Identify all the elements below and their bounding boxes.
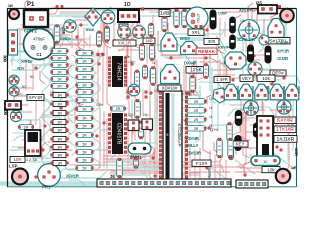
resistor RB1	[76, 50, 94, 55]
svg-text:2R: 2R	[82, 159, 87, 163]
resistor RB12	[76, 141, 94, 146]
crystal X1	[128, 143, 151, 154]
svg-text:1#R: 1#R	[291, 166, 297, 170]
resistor RB13	[76, 149, 94, 154]
resistor RB15	[76, 165, 94, 170]
pads top small	[56, 5, 58, 7]
pad bottom-right	[276, 169, 290, 183]
svg-text:DX#4R: DX#4R	[184, 61, 198, 66]
svg-text:1R: 1R	[57, 102, 62, 107]
svg-text:1#5K: 1#5K	[190, 68, 202, 74]
capacitor C2	[186, 7, 208, 29]
svg-text:4n7: 4n7	[98, 52, 104, 56]
svg-text:KTC08A=P: KTC08A=P	[177, 123, 182, 146]
svg-text:XD#1R: XD#1R	[66, 174, 80, 179]
mounting pad top-left	[9, 9, 19, 19]
resistor RA11	[51, 127, 69, 132]
capacitor CVb	[149, 44, 154, 61]
label X4L1R box	[113, 40, 136, 46]
resistor RV8	[182, 9, 187, 28]
resistor RV12	[217, 138, 222, 158]
svg-text:2R: 2R	[82, 99, 87, 103]
svg-text:2R: 2R	[116, 107, 121, 111]
resistor RC2	[186, 108, 207, 113]
resistor RA15	[51, 160, 69, 165]
resistor RV6	[162, 16, 167, 32]
svg-text:TR#A: TR#A	[85, 27, 95, 32]
capacitor CE1 dark	[235, 111, 241, 126]
diode D3	[230, 35, 236, 49]
vias	[29, 16, 294, 179]
transistor T2 left	[9, 75, 19, 85]
svg-text:C0N 2: C0N 2	[24, 29, 37, 35]
transistor QO1	[224, 84, 238, 100]
svg-text:BC: BC	[22, 85, 27, 89]
connector P5	[258, 5, 277, 14]
svg-text:1R: 1R	[57, 153, 62, 158]
svg-text:2R: 2R	[57, 71, 62, 75]
capacitor CV2	[134, 70, 139, 88]
svg-text:PR1: PR1	[42, 185, 51, 190]
svg-text:X#Y1R: X#Y1R	[29, 95, 43, 100]
resistor RC4	[186, 126, 207, 131]
connector 2pin left	[5, 101, 21, 110]
label X4L	[188, 29, 204, 36]
svg-text:10R: 10R	[13, 157, 21, 162]
svg-text:220R: 220R	[294, 148, 298, 156]
svg-text:C#1#R: C#1#R	[277, 41, 289, 46]
resistor RA3	[51, 62, 69, 67]
resistor RA8	[51, 101, 69, 106]
svg-text:2R: 2R	[82, 151, 87, 155]
svg-text:X#L1R: X#L1R	[118, 41, 131, 46]
transistor Q6	[101, 10, 115, 24]
label 10k	[257, 75, 275, 82]
resistor RB10	[76, 123, 94, 128]
label VEY	[240, 75, 253, 82]
resistor RV7	[174, 9, 179, 28]
svg-text:100n: 100n	[96, 103, 103, 107]
svg-text:2R: 2R	[82, 108, 87, 112]
resistor RB3	[76, 66, 94, 71]
svg-text:100n: 100n	[128, 60, 135, 64]
label SE1TB1	[266, 38, 290, 45]
svg-text:KEY#R: KEY#R	[218, 45, 230, 50]
resistor RA1	[51, 48, 69, 53]
IC U1	[108, 56, 126, 87]
resistor RH2	[110, 106, 126, 111]
resistor RV10	[227, 123, 232, 142]
label 10k b	[262, 167, 280, 173]
capacitor CVa	[139, 44, 144, 61]
svg-text:1 2 3A: 1 2 3A	[26, 158, 37, 162]
label K4Y4R	[274, 117, 296, 124]
svg-text:5: 5	[167, 133, 169, 137]
resistor RB5	[76, 82, 94, 87]
label REMAK	[196, 48, 217, 54]
transistor Q5 diamond	[85, 8, 101, 26]
svg-text:1R: 1R	[57, 137, 62, 142]
svg-text:1k: 1k	[209, 115, 213, 119]
IC U5 vertical module	[257, 116, 273, 157]
svg-text:2k2: 2k2	[76, 87, 81, 91]
svg-text:1N: 1N	[222, 61, 227, 65]
pad small top	[141, 8, 144, 11]
resistor RA6	[51, 83, 69, 88]
svg-text:KEY#: KEY#	[266, 86, 270, 94]
svg-text:F1X#: F1X#	[196, 161, 208, 167]
resistor RV5	[150, 67, 155, 86]
label 1-D box	[143, 38, 155, 43]
resistor RV9	[204, 64, 209, 79]
svg-text:2R: 2R	[82, 117, 87, 121]
svg-text:2R: 2R	[194, 109, 199, 113]
resistor RV1	[96, 31, 101, 47]
board outline left	[7, 8, 9, 187]
svg-text:300: 300	[208, 39, 216, 44]
svg-text:KEY#: KEY#	[297, 86, 301, 94]
svg-text:#DY: #DY	[17, 66, 25, 71]
capacitor CV5	[128, 120, 139, 131]
svg-text:2R: 2R	[82, 143, 87, 147]
svg-text:10n: 10n	[125, 55, 131, 59]
svg-text:X#+D#: X#+D#	[21, 59, 33, 64]
transistor Q15 octagon	[225, 52, 246, 69]
resistor RB11	[76, 132, 94, 137]
label 1T41R	[274, 126, 296, 133]
svg-text:P1: P1	[27, 2, 35, 8]
bottom copper cyan traces	[0, 10, 295, 185]
svg-text:1R: 1R	[57, 93, 62, 98]
svg-text:2R: 2R	[57, 78, 62, 82]
svg-text:2R: 2R	[24, 126, 29, 130]
label DEP4	[270, 70, 286, 76]
transistor Q10	[161, 65, 180, 84]
label KEY box	[232, 141, 248, 147]
svg-text:10R: 10R	[186, 93, 193, 97]
resistor R 100R	[54, 25, 60, 44]
svg-text:BC: BC	[30, 75, 35, 79]
svg-text:4700: 4700	[196, 14, 201, 24]
resistor RA14	[51, 152, 69, 157]
capacitor CV7	[134, 158, 139, 169]
resistor RB9	[76, 115, 94, 120]
connector J6 header	[97, 179, 231, 187]
svg-text:X#L: X#L	[192, 30, 201, 36]
resistor RB6	[76, 89, 94, 94]
resistor RB2	[76, 58, 94, 63]
trimmer VR5	[277, 100, 291, 114]
label 300 box	[204, 39, 219, 45]
resistor RA2	[51, 55, 69, 60]
transistor QO3	[255, 84, 268, 100]
transistor QO4	[270, 84, 284, 100]
svg-text:1R: 1R	[57, 120, 62, 125]
transistor T4 left	[10, 110, 21, 121]
svg-text:22p: 22p	[128, 113, 134, 117]
svg-text:470uF: 470uF	[33, 37, 45, 42]
resistor RB7	[76, 97, 94, 102]
diode D5	[265, 46, 271, 63]
transistor T1 topleft	[64, 20, 76, 32]
capacitor CE3 dark	[253, 123, 259, 137]
svg-text:KEY: KEY	[236, 142, 245, 147]
regulator VR1	[25, 130, 41, 156]
resistor RA7	[51, 92, 69, 97]
svg-text:2R: 2R	[194, 127, 199, 131]
svg-text:1O: 1O	[124, 2, 131, 8]
svg-text:KEY#: KEY#	[251, 86, 255, 94]
label 1.5K	[186, 67, 206, 74]
svg-text:10k: 10k	[262, 76, 270, 82]
resistor RV11	[228, 145, 233, 160]
svg-text:XD#13R: XD#13R	[186, 151, 202, 156]
diode D1	[210, 10, 216, 29]
trimmer VR3 flower	[248, 62, 262, 76]
resistor RA4	[51, 69, 69, 74]
svg-text:1k: 1k	[209, 97, 213, 101]
svg-text:2R: 2R	[82, 167, 87, 171]
trimmer VR2	[239, 20, 260, 41]
diode D2	[230, 17, 236, 33]
resistor R-left small	[18, 125, 34, 130]
resistor RB8	[76, 106, 94, 111]
svg-text:2R: 2R	[82, 134, 87, 138]
svg-text:47u: 47u	[154, 89, 160, 93]
svg-text:C0S#: C0S#	[218, 11, 228, 16]
svg-text:VEY: VEY	[242, 76, 252, 82]
svg-text:1k: 1k	[50, 46, 54, 50]
micro value labels	[22, 19, 246, 128]
top copper red traces	[10, 8, 293, 180]
resistor RB4	[76, 74, 94, 79]
pads mid	[195, 25, 197, 27]
label 1WJ1R	[274, 136, 297, 143]
svg-text:CD4017B: CD4017B	[116, 123, 122, 145]
resistor RA5	[51, 76, 69, 81]
svg-text:2R: 2R	[57, 64, 62, 68]
transistor Q12	[181, 42, 198, 55]
svg-text:2R: 2R	[57, 50, 62, 54]
connector 3pad top	[118, 10, 139, 22]
svg-text:2R: 2R	[82, 76, 87, 80]
transistor Q14	[259, 35, 269, 45]
svg-text:1C: 1C	[263, 159, 268, 164]
pad LSP	[12, 169, 28, 185]
transistor QO2	[239, 84, 253, 100]
capacitor CV8	[117, 158, 123, 178]
transistor Q8	[133, 26, 146, 39]
transistor T3 left	[9, 86, 19, 96]
svg-text:2R: 2R	[194, 118, 199, 122]
label small box	[119, 24, 128, 29]
transistor Q9	[128, 84, 140, 96]
svg-text:D#LL#: D#LL#	[186, 143, 199, 148]
diode bridge B1	[213, 88, 227, 103]
svg-text:2R: 2R	[57, 57, 62, 61]
resistor RA12	[51, 136, 69, 141]
svg-text:10k: 10k	[240, 19, 246, 23]
svg-text:1k: 1k	[209, 106, 213, 110]
resistor RV3	[148, 23, 153, 37]
transistor QO5	[285, 84, 299, 100]
label F1X4	[192, 160, 211, 167]
capacitor CV4	[150, 68, 155, 84]
resistor RV14	[190, 76, 195, 93]
pads pair mid	[97, 53, 99, 55]
svg-text:1R: 1R	[57, 128, 62, 133]
svg-text:74HC14: 74HC14	[116, 62, 122, 81]
inductor L1	[251, 156, 280, 166]
svg-text:2R: 2R	[82, 52, 87, 56]
extra zone traces	[100, 15, 153, 57]
pads U2 area	[127, 91, 129, 93]
svg-text:X#Y1R: X#Y1R	[277, 49, 289, 54]
resistor RVmid	[135, 100, 141, 119]
resistor RB14	[76, 157, 94, 162]
svg-text:2R: 2R	[82, 91, 87, 95]
label 14R	[214, 77, 230, 83]
svg-text:LSP: LSP	[9, 164, 18, 169]
resistor RC1	[186, 99, 207, 104]
svg-text:2R: 2R	[194, 100, 199, 104]
svg-text:1#D: 1#D	[146, 39, 153, 43]
svg-text:1#J2R: 1#J2R	[277, 56, 288, 61]
svg-text:SCRA 1#K: SCRA 1#K	[237, 37, 255, 42]
svg-text:10k: 10k	[76, 48, 82, 52]
capacitor CE2 dark	[235, 136, 241, 151]
label 1-8	[159, 10, 170, 18]
resistor RA10	[51, 119, 69, 124]
board outline bottom	[7, 186, 296, 188]
svg-text:1k: 1k	[50, 122, 54, 126]
transistor Q13	[268, 19, 284, 38]
svg-text:10k: 10k	[267, 167, 275, 172]
svg-text:1#J1#R: 1#J1#R	[277, 137, 295, 143]
svg-text:2R: 2R	[82, 84, 87, 88]
resistor RV13	[228, 138, 233, 158]
connector J7 header	[236, 180, 268, 188]
svg-text:1 4#R: 1 4#R	[216, 77, 228, 82]
board outline right	[296, 8, 298, 187]
IC U3	[108, 113, 126, 154]
resistor RA9	[51, 110, 69, 115]
svg-text:1R: 1R	[50, 90, 55, 94]
svg-text:1k: 1k	[209, 124, 213, 128]
capacitor CV3	[143, 65, 148, 79]
capacitor CV6	[142, 119, 153, 130]
IC U4 MCU	[159, 91, 188, 181]
svg-text:1R: 1R	[57, 145, 62, 150]
svg-text:B#DY: B#DY	[180, 36, 190, 41]
trimmer VR4	[244, 101, 259, 116]
svg-text:1k: 1k	[152, 61, 156, 65]
resistor RV2	[104, 26, 109, 42]
svg-text:1R: 1R	[57, 111, 62, 116]
svg-text:2R: 2R	[82, 68, 87, 72]
svg-text:C1: C1	[36, 52, 42, 57]
connector 3pin left	[9, 30, 18, 55]
svg-text:300: 300	[3, 108, 8, 116]
svg-text:1T#1#R: 1T#1#R	[276, 127, 294, 133]
svg-text:2R: 2R	[82, 60, 87, 64]
svg-text:300: 300	[3, 55, 8, 63]
svg-text:XD#10#: XD#10#	[162, 86, 178, 91]
diode D4	[248, 45, 254, 62]
transistor PR1	[38, 164, 61, 187]
board outline top	[7, 8, 296, 10]
resistor RV4	[138, 121, 143, 139]
svg-text:22p: 22p	[143, 113, 149, 117]
svg-text:2R: 2R	[57, 85, 62, 89]
svg-text:1R: 1R	[57, 161, 62, 166]
svg-text:REMAK: REMAK	[198, 49, 216, 54]
svg-text:X#4D#: X#4D#	[60, 36, 72, 41]
resistor RC3	[186, 117, 207, 122]
svg-text:2R: 2R	[82, 125, 87, 129]
capacitor C1	[24, 29, 55, 60]
label KEY10K	[158, 85, 181, 91]
connector P1	[24, 10, 48, 27]
pads P5 side	[278, 5, 280, 7]
label KEY-R left	[27, 95, 44, 101]
label D-8	[10, 157, 25, 163]
mounting pad top-right	[280, 9, 294, 23]
transistor Q7	[118, 26, 131, 39]
svg-text:XD#4R: XD#4R	[186, 136, 200, 141]
resistor RA13	[51, 144, 69, 149]
svg-text:J6: J6	[110, 174, 115, 179]
transistor Q11	[161, 33, 177, 51]
svg-text:K#Y#R: K#Y#R	[277, 118, 293, 124]
svg-text:X#STR#: X#STR#	[239, 8, 254, 13]
